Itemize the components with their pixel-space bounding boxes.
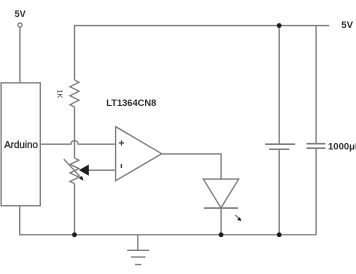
svg-text:Arduino: Arduino	[4, 140, 38, 151]
svg-text:1000μF: 1000μF	[328, 141, 356, 152]
svg-text:5V: 5V	[15, 9, 26, 19]
svg-text:LT1364CN8: LT1364CN8	[106, 98, 156, 108]
svg-text:5V: 5V	[341, 20, 353, 31]
svg-text:1K: 1K	[56, 90, 63, 99]
